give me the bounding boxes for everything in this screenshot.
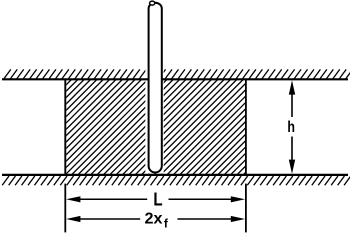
top plate hatching bbox=[4, 69, 350, 78]
block left edge bbox=[64, 79, 66, 175]
bottom plate bbox=[2, 174, 348, 176]
svg-text:h: h bbox=[287, 119, 295, 136]
rod tip bbox=[150, 1, 155, 5]
dimension h arrow bbox=[291, 94, 293, 161]
svg-text:L: L bbox=[153, 189, 162, 209]
dimension L arrow bbox=[78, 198, 233, 200]
bottom plate hatching bbox=[2, 176, 350, 185]
block right edge bbox=[245, 79, 247, 175]
rod bbox=[149, 3, 162, 173]
rod channel bbox=[145, 0, 163, 174]
extension line right bbox=[245, 184, 247, 233]
svg-text:2x: 2x bbox=[145, 211, 163, 228]
hatched block bbox=[0, 79, 339, 175]
top plate bbox=[2, 78, 348, 80]
extension line left bbox=[64, 184, 66, 233]
dimension 2xf arrow bbox=[78, 218, 233, 220]
